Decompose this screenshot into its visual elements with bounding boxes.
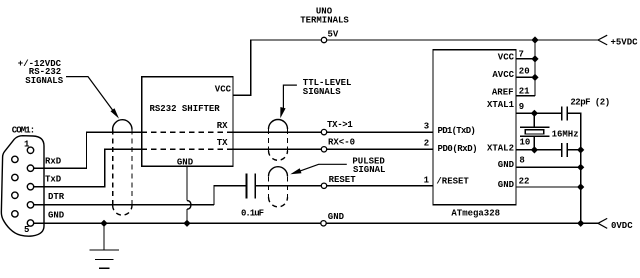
svg-text:TxD: TxD (45, 175, 62, 185)
junction dot cap2/bus (577, 146, 584, 153)
wire +5V top rail (250, 39, 598, 41)
box RS232 SHIFTER (142, 77, 233, 167)
svg-text:7: 7 (519, 50, 524, 60)
svg-text:SIGNALS: SIGNALS (25, 76, 63, 86)
pin 3 TxD (27, 184, 33, 190)
wire RxD to shifter RX (34, 132, 142, 168)
label PULSED SIGNAL (352, 157, 385, 176)
wire DTR up to reset cap (214, 186, 246, 205)
wire shifter GND down with hop over DTR (186, 166, 188, 201)
terminal RX<-0 circle (321, 147, 326, 152)
pin 20 wire (516, 76, 535, 78)
node 0VDC open arrow (598, 218, 607, 228)
svg-text:2: 2 (424, 139, 429, 149)
junction dot bus/rail (531, 36, 538, 43)
cable shield RS-232 (dashed stadium) (113, 120, 132, 130)
junction dot (183, 220, 190, 227)
pin 4 DTR (27, 202, 33, 208)
junction dot pin10 (531, 146, 538, 153)
wire VCC bus left of +5V rail (534, 40, 536, 96)
svg-text:22: 22 (519, 176, 530, 186)
svg-text:5V: 5V (328, 30, 339, 40)
svg-text:SIGNALS: SIGNALS (303, 87, 341, 97)
wire shifter TX to ATmega PD0 (RX<-0) (233, 148, 433, 150)
svg-text:5: 5 (24, 225, 29, 235)
svg-text:0VDC: 0VDC (611, 221, 633, 231)
svg-text:+5VDC: +5VDC (611, 37, 639, 47)
svg-text:0.1uF: 0.1uF (241, 209, 264, 219)
svg-text:20: 20 (519, 67, 530, 77)
svg-text:RX: RX (217, 121, 228, 131)
label +/-12VDC RS-232 SIGNALS (18, 59, 64, 86)
pin 10 wire XTAL2 (516, 149, 561, 151)
svg-text:AVCC: AVCC (492, 70, 514, 80)
pin 2 RxD (27, 165, 33, 171)
wire caps to right bus (568, 113, 581, 223)
capacitor C 22pF top (562, 106, 567, 120)
pin 5 GND (27, 220, 33, 226)
cable pulsed (dashed stadium) (269, 167, 288, 177)
wire shifter RX to ATmega PD1 (TX->1) (233, 131, 433, 133)
svg-text:PD0(RxD): PD0(RxD) (438, 144, 478, 154)
svg-text:21: 21 (519, 87, 530, 97)
svg-text:RS232 SHIFTER: RS232 SHIFTER (150, 104, 221, 114)
pin 7 wire (516, 58, 535, 60)
svg-text:GND: GND (498, 180, 515, 190)
svg-text:XTAL1: XTAL1 (487, 100, 515, 110)
svg-text:8: 8 (519, 156, 524, 166)
pin 8 (12, 192, 18, 198)
svg-text:TERMINALS: TERMINALS (300, 16, 349, 26)
junction dot pin7 (531, 55, 538, 62)
leader arrow pulsed (295, 164, 347, 173)
leader arrow to RS-232 cable (66, 77, 116, 114)
junction dot (100, 220, 107, 227)
svg-text:XTAL2: XTAL2 (487, 144, 514, 154)
wire cap to ATmega /RESET (255, 185, 433, 187)
wire DTR (34, 204, 214, 206)
svg-text:GND: GND (328, 212, 345, 222)
svg-text:1: 1 (24, 139, 30, 149)
pin 8 wire GND (516, 166, 581, 168)
wire RX dashed inside shifter (142, 131, 233, 133)
svg-text:RX<-0: RX<-0 (328, 137, 355, 147)
pin 6 (12, 156, 18, 162)
svg-text:/RESET: /RESET (436, 176, 469, 186)
wire GND bottom rail (34, 222, 598, 224)
svg-text:TX: TX (217, 138, 228, 148)
IC U1 ATmega328 (433, 50, 516, 205)
svg-text:GND: GND (498, 160, 515, 170)
svg-text:VCC: VCC (498, 53, 515, 63)
crystal Y1 16MHz (533, 113, 535, 150)
svg-text:3: 3 (424, 122, 429, 132)
svg-text:16MHz: 16MHz (552, 130, 579, 140)
svg-text:22pF (2): 22pF (2) (570, 98, 609, 108)
pin 22 wire GND (516, 186, 581, 188)
label TTL-LEVEL SIGNALS (303, 78, 352, 97)
wire VCC stub from RS232 shifter to 5V rail (233, 40, 251, 95)
junction dot pin8 (577, 164, 584, 171)
wire TX dashed inside shifter (142, 148, 233, 150)
terminal GND circle (321, 221, 326, 226)
svg-text:GND: GND (48, 211, 65, 221)
junction dot pin9 (531, 110, 538, 117)
svg-text:COM1:: COM1: (12, 125, 35, 135)
pin 1 (27, 147, 33, 153)
ground (90, 223, 119, 268)
pin 21 wire (516, 95, 535, 97)
capacitor C 22pF bottom (562, 143, 567, 157)
terminal TX->1 circle (321, 129, 326, 134)
svg-text:VCC: VCC (215, 85, 232, 95)
pin 9 (12, 211, 18, 217)
svg-text:10: 10 (520, 138, 531, 148)
svg-text:ATmega328: ATmega328 (451, 208, 500, 218)
leader arrow TTL (283, 85, 297, 108)
svg-text:9: 9 (519, 102, 524, 112)
svg-text:TX->1: TX->1 (327, 120, 353, 130)
svg-text:DTR: DTR (48, 192, 65, 202)
junction dot pin22 (577, 183, 584, 190)
svg-text:GND: GND (177, 158, 194, 168)
junction dot pin20 (531, 74, 538, 81)
svg-text:1: 1 (424, 175, 430, 185)
junction dot bus/ground rail (577, 220, 584, 227)
cable TTL (dashed stadium) (269, 120, 288, 130)
svg-text:SIGNAL: SIGNAL (353, 165, 385, 175)
svg-text:PD1(TxD): PD1(TxD) (438, 126, 476, 136)
pin 9 wire XTAL1 (516, 112, 561, 114)
terminal RESET circle (321, 183, 326, 188)
capacitor C 0.1uF (247, 174, 256, 199)
node +5VDC open arrow (598, 35, 607, 45)
label UNO TERMINALS (300, 7, 349, 26)
svg-text:RxD: RxD (45, 157, 62, 167)
terminal 5V circle (321, 37, 326, 42)
wire TxD to shifter TX (34, 149, 142, 186)
pin 7 (12, 174, 18, 180)
svg-text:RESET: RESET (329, 175, 357, 185)
svg-text:AREF: AREF (492, 88, 514, 98)
